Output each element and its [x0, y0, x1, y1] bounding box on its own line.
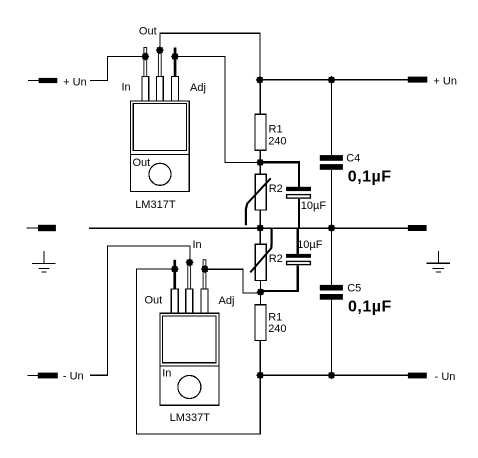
svg-text:- Un: - Un: [63, 371, 84, 383]
junction node B (R2/R1/Adj U2): [256, 288, 264, 296]
wire C4 bottom lead: [331, 170, 333, 228]
potentiometer R2 body: [255, 174, 266, 210]
ground bar 1 left: [32, 262, 56, 264]
svg-text:In: In: [122, 82, 131, 94]
wire R1 bottom lower lead: [259, 341, 261, 376]
terminal 0V left: [27, 225, 56, 231]
wire 10uF top to 0V rail: [298, 199, 300, 228]
svg-text:+ Un: + Un: [63, 76, 87, 88]
wiper tail R2 to 0V rail: [246, 204, 247, 226]
wire stub -Un left: [27, 374, 38, 376]
wire R1 bottom lead: [259, 150, 261, 162]
wire 10uF bottom to node B: [261, 290, 299, 292]
pin lead Adj U1: [174, 48, 177, 77]
wiper tail R2 bottom to 0V rail: [270, 229, 273, 249]
terminal -Un left: [27, 371, 83, 383]
package body U1: [131, 101, 190, 192]
capacitor C5: [320, 228, 392, 375]
resistor R1 body: [255, 114, 266, 150]
wire -Un bottom rail: [260, 374, 408, 376]
wire +Un left terminal to In pin of U1: [90, 57, 145, 81]
capacitor C4: [320, 80, 392, 228]
terminal pad +Un right: [408, 77, 428, 83]
svg-text:R2: R2: [269, 183, 283, 195]
terminal -Un right: [408, 371, 455, 383]
wire R2 top lead: [259, 162, 261, 174]
junction Out pin U2: [171, 265, 179, 273]
junction In pin U1: [141, 52, 149, 60]
package body U2: [160, 313, 219, 405]
wire R1 top lead: [259, 80, 261, 114]
pin lead Adj U2: [203, 260, 206, 289]
plate positive 10uF bottom: [286, 254, 311, 258]
pin 1 leg In U1: [142, 77, 149, 101]
ground bar 2 right: [433, 267, 444, 269]
pin 3 leg Adj U2: [201, 289, 208, 313]
package separator U1: [131, 153, 190, 155]
svg-text:240: 240: [268, 135, 286, 147]
junction Adj pin U1: [171, 52, 179, 60]
ground stem left: [43, 251, 45, 264]
plate positive 10uF top: [286, 187, 311, 191]
wire +Un rail: [260, 79, 408, 81]
ground bar 1 right: [427, 262, 451, 264]
wire R2 bottom top lead: [259, 228, 261, 244]
svg-text:Out: Out: [139, 25, 157, 37]
wire -Un left terminal to In pin of U2: [90, 246, 190, 375]
junction 0V rail / C4 C5: [327, 224, 335, 232]
wire 10uF bottom lower lead: [296, 265, 298, 292]
plate 1 C5: [320, 285, 343, 291]
pin lead Out U2: [173, 260, 176, 289]
pin lead Out U1: [158, 50, 161, 77]
wire stub +Un left: [28, 80, 39, 82]
wire C5 bottom lead: [331, 300, 333, 376]
pin 1 leg Out U2: [171, 289, 178, 313]
pin lead In U1: [144, 48, 147, 77]
ground stem right: [437, 251, 439, 263]
svg-text:LM317T: LM317T: [135, 199, 176, 211]
svg-text:240: 240: [268, 323, 286, 335]
svg-text:C5: C5: [347, 283, 361, 295]
junction +Un rail / C4: [327, 76, 335, 84]
terminal +Un left: [28, 76, 87, 88]
mounting hole U1: [149, 163, 171, 185]
resistor R1 bottom body: [255, 305, 266, 341]
svg-text:R1: R1: [268, 311, 282, 323]
junction In pin U2: [185, 258, 193, 266]
package separator U2: [160, 365, 219, 367]
terminal +Un right: [408, 76, 457, 88]
potentiometer R2 (negative side): [250, 228, 282, 292]
terminal pad +Un left: [39, 78, 58, 83]
plate 1 C4: [320, 155, 343, 161]
wire Out pin U1 to +Un rail: [160, 33, 260, 80]
terminal 0V right: [408, 225, 427, 231]
svg-text:In: In: [193, 239, 202, 251]
junction Adj pin U2: [201, 265, 209, 273]
svg-text:R2: R2: [269, 253, 283, 265]
svg-text:LM337T: LM337T: [170, 412, 211, 424]
junction node A (R1/R2/Adj U1): [256, 158, 264, 166]
wire C4 top lead: [331, 80, 333, 155]
svg-text:0,1µF: 0,1µF: [348, 299, 392, 316]
svg-text:10µF: 10µF: [301, 200, 327, 212]
potentiometer R2 bottom body: [255, 244, 266, 280]
pin lead In U2: [188, 262, 191, 289]
wire Adj pin U1 to node A: [175, 57, 260, 163]
svg-text:Out: Out: [145, 294, 163, 306]
ground bar 2 left: [38, 267, 49, 269]
pin 3 leg Adj U1: [172, 77, 179, 101]
svg-text:R1: R1: [269, 123, 283, 135]
terminal pad -Un right: [408, 373, 427, 379]
pin 2 leg In U2: [186, 289, 193, 313]
wire R2 bottom lower lead: [259, 281, 261, 292]
regulator U1 LM317T (TO-220 package): [131, 77, 190, 192]
terminal pad 0V left: [38, 225, 56, 231]
wiper arrow R2 bottom: [250, 248, 271, 273]
ground bar 3 left: [41, 271, 46, 273]
svg-text:0,1µF: 0,1µF: [348, 169, 392, 186]
ground symbol right: [427, 251, 451, 272]
wire C5 top lead: [331, 228, 333, 285]
wire 10uF bottom to 0V rail: [296, 228, 298, 255]
svg-text:10µF: 10µF: [297, 239, 323, 251]
ground bar 3 right: [436, 271, 441, 273]
svg-text:Adj: Adj: [190, 82, 206, 94]
svg-text:In: In: [162, 367, 171, 379]
ground symbol left: [32, 251, 56, 272]
capacitor 10uF (positive side, electrolytic): [286, 187, 326, 228]
svg-text:Adj: Adj: [219, 295, 235, 307]
regulator U2 LM337T (TO-220 package): [160, 289, 219, 405]
wire stub 0V left: [27, 227, 38, 229]
potentiometer R2 (positive side): [246, 162, 283, 228]
svg-text:Out: Out: [133, 157, 151, 169]
svg-text:C4: C4: [346, 153, 360, 165]
pin 2 leg Out U1: [156, 77, 163, 101]
wire R1 bottom top lead: [259, 292, 261, 305]
plate negative 10uF top: [287, 195, 311, 199]
junction 0V rail / R2 column: [256, 224, 264, 232]
package tab U2: [163, 316, 216, 363]
junction -Un rail / C5: [327, 371, 335, 379]
plate 2 C5: [320, 294, 343, 300]
svg-text:+ Un: + Un: [433, 76, 457, 88]
wire R2 bottom lead: [259, 210, 261, 228]
resistor R1 (positive side): [255, 80, 287, 162]
wiper arrow R2: [247, 178, 271, 204]
wire node A to capacitor 10uF top: [260, 162, 299, 187]
wire Adj pin U2 to node B: [205, 269, 261, 293]
package tab U1: [133, 104, 186, 151]
mounting hole U2: [178, 376, 201, 399]
junction Out pin U1: [156, 46, 164, 54]
wire Out pin U2 loop to -Un rail: [136, 269, 260, 434]
junction -Un rail / R1 loop: [256, 371, 264, 379]
plate negative 10uF bottom: [287, 261, 311, 264]
svg-text:- Un: - Un: [435, 371, 456, 383]
wire 0V mid rail: [89, 227, 408, 229]
resistor R1 (negative side): [255, 292, 287, 375]
capacitor 10uF (negative side, electrolytic): [261, 228, 323, 292]
plate 2 C4: [320, 164, 343, 170]
junction +Un rail / Out wire: [256, 76, 264, 84]
terminal pad -Un left: [38, 373, 58, 379]
